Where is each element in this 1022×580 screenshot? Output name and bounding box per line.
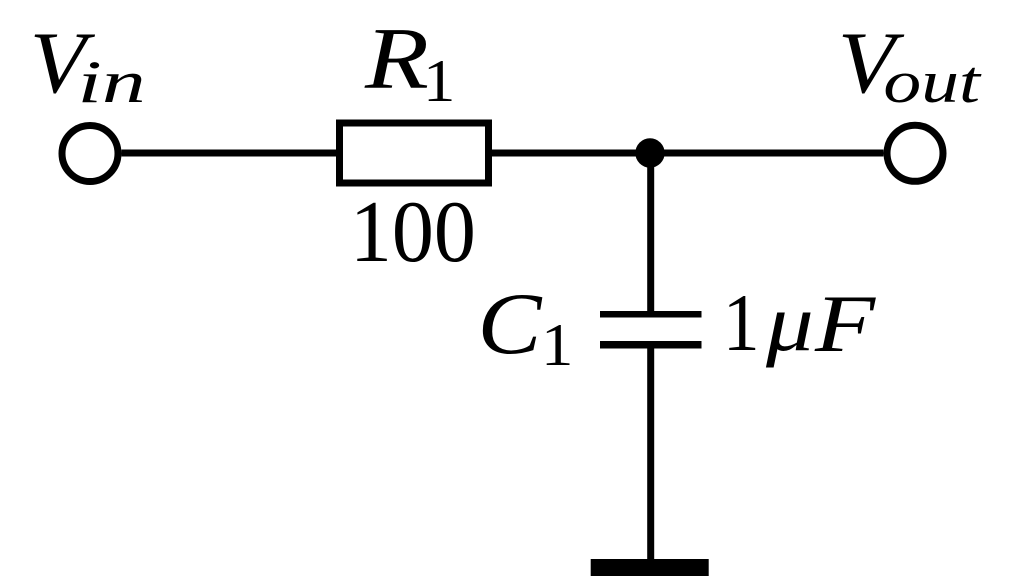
junction node dot [635, 138, 664, 167]
resistor R1 [340, 123, 489, 183]
svg-text:μ: μ [765, 278, 814, 368]
wire R1 to Vout [492, 150, 884, 157]
wire Vin to R1 [122, 150, 337, 157]
svg-text:in: in [78, 49, 146, 115]
terminal Vin [62, 126, 118, 182]
svg-text:R: R [364, 10, 429, 107]
svg-text:F: F [814, 278, 877, 369]
svg-text:1: 1 [423, 47, 455, 114]
wire junction down to C1 [647, 153, 654, 311]
capacitor C1 top plate [600, 311, 702, 318]
capacitor C1 bottom plate [600, 341, 702, 349]
svg-text:100: 100 [350, 182, 476, 280]
svg-text:C: C [478, 275, 544, 373]
svg-text:1: 1 [541, 311, 573, 378]
svg-text:out: out [883, 48, 982, 115]
svg-text:1: 1 [723, 276, 760, 367]
ground [591, 559, 709, 576]
terminal Vout [887, 125, 943, 181]
wire C1 to ground [647, 349, 654, 560]
